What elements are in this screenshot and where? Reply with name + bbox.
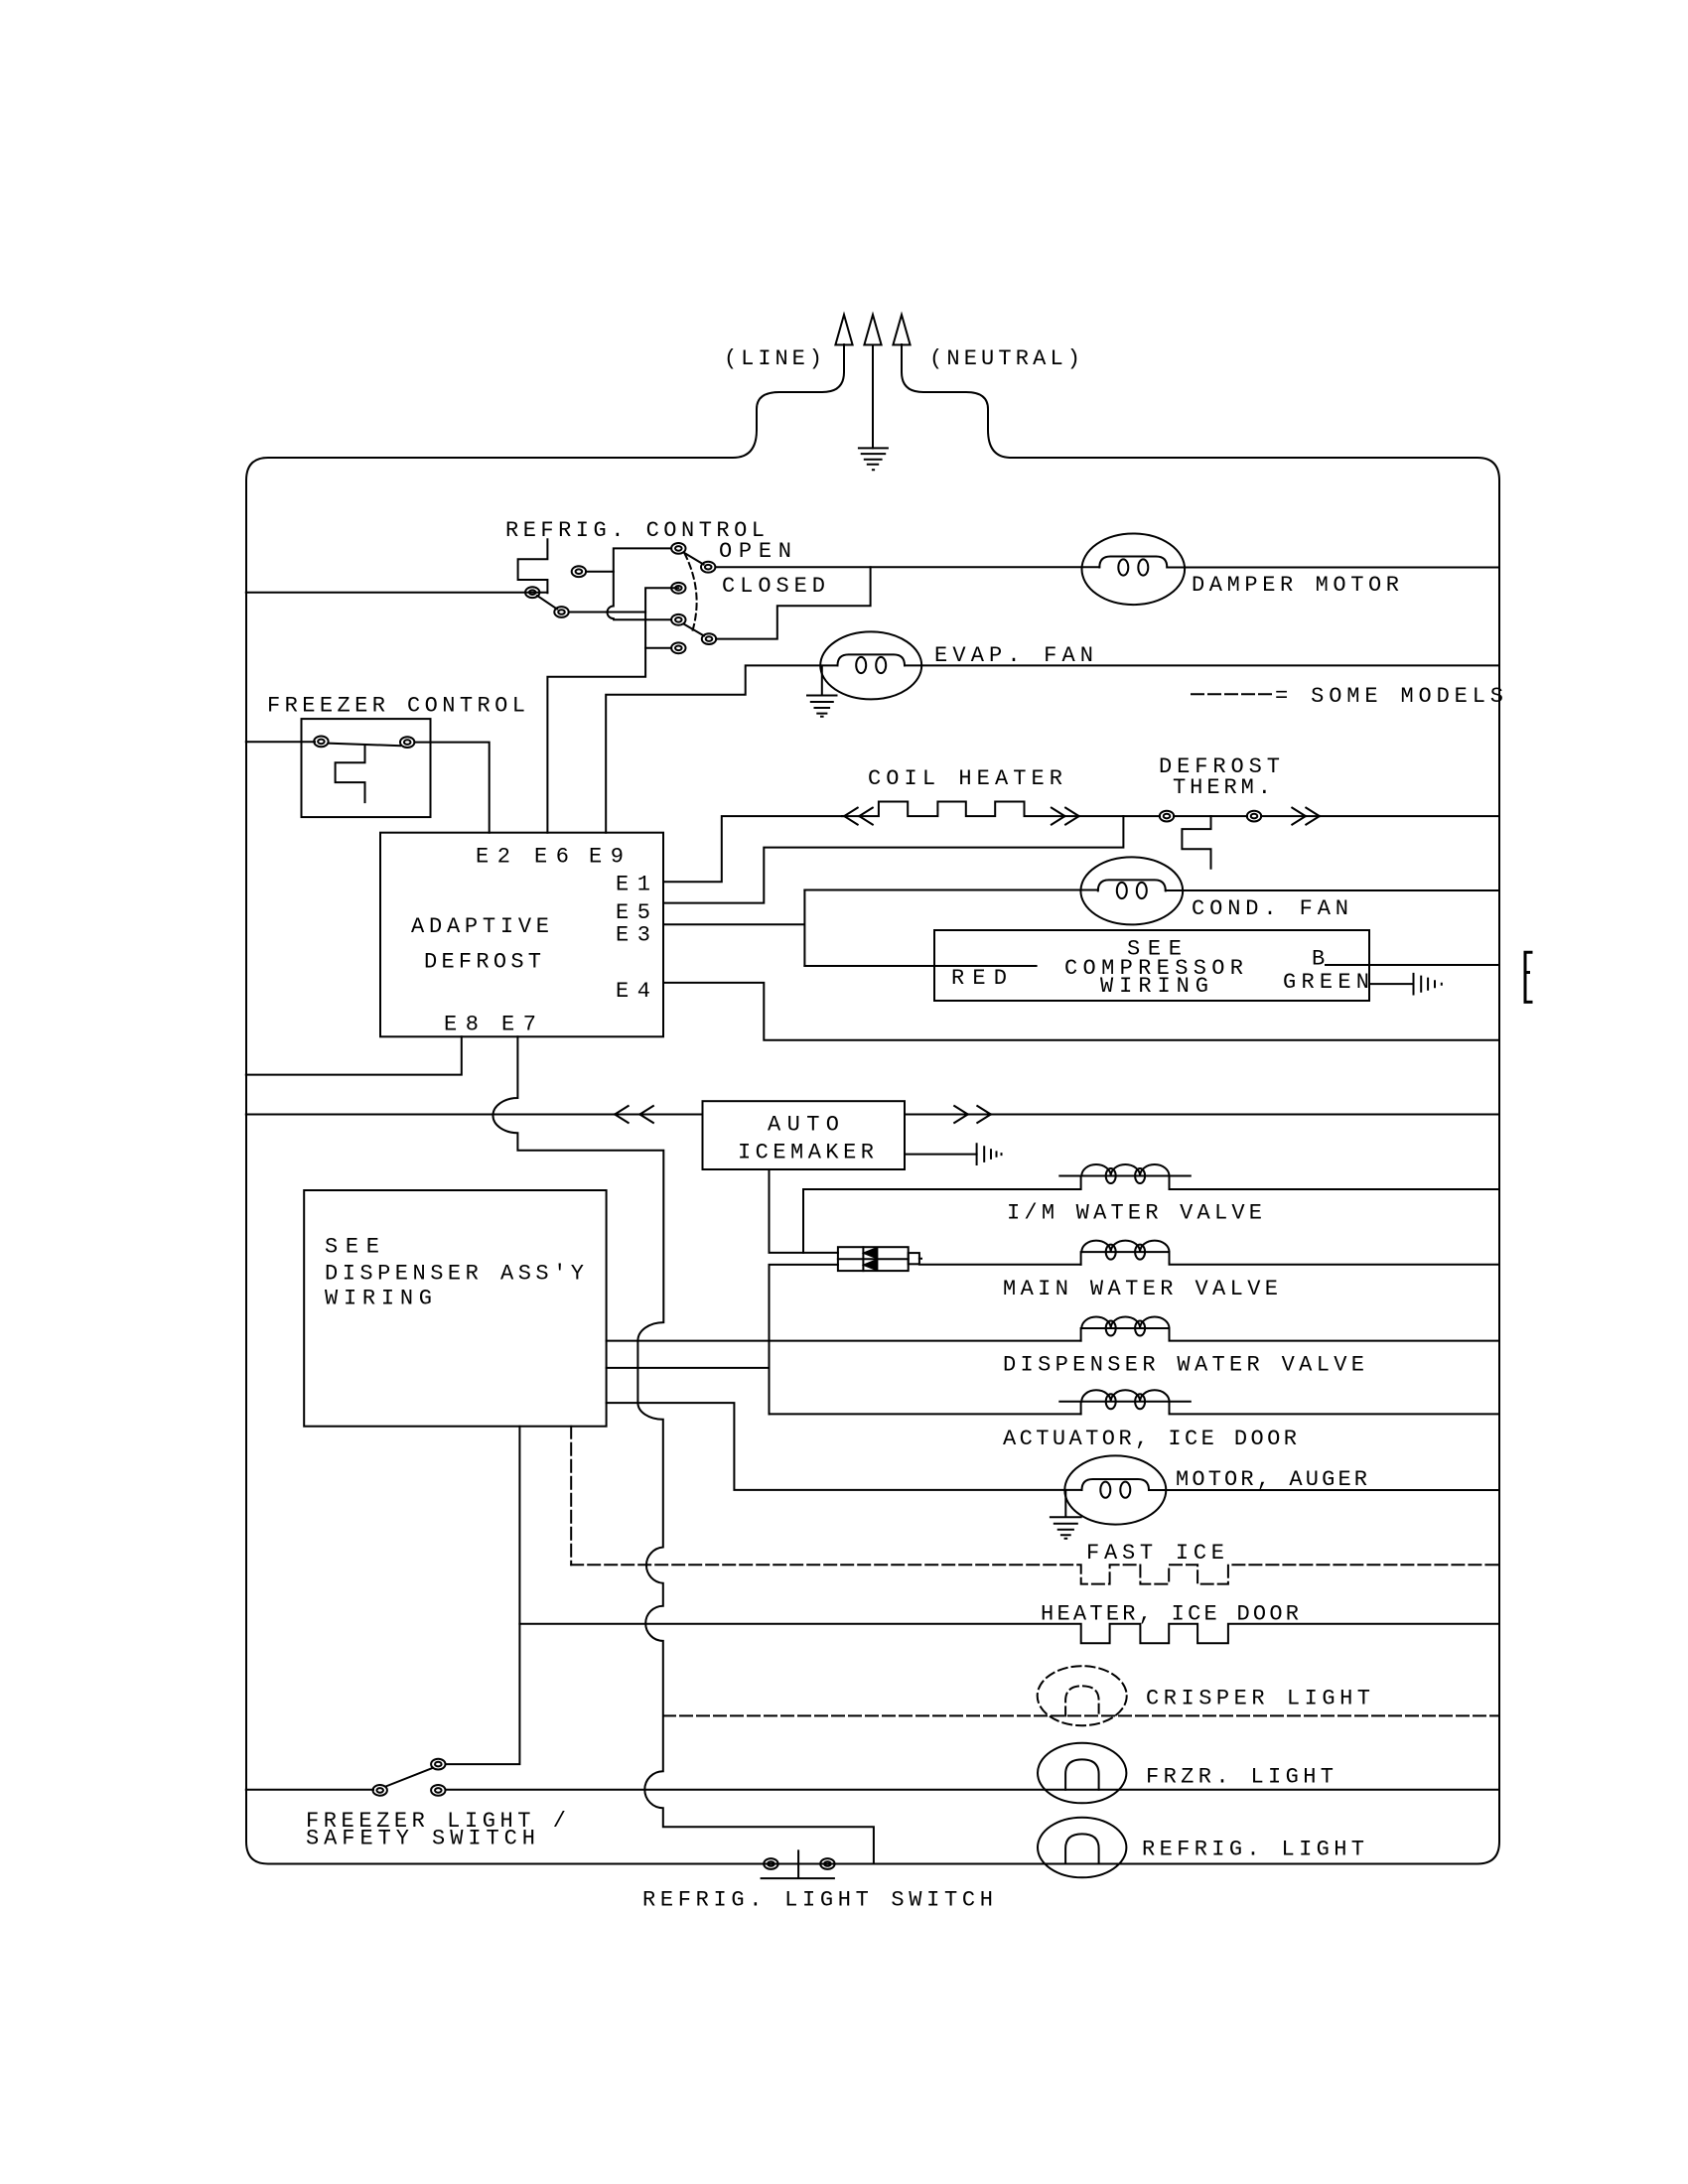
box auto icemaker: [703, 1101, 906, 1169]
lamp freezer light: [1038, 1743, 1126, 1804]
svg-text:SEE: SEE: [325, 1235, 383, 1260]
terminal freezer light switch left: [373, 1785, 387, 1796]
wire B lead to right border: [1326, 964, 1499, 966]
svg-text:WIRING: WIRING: [1100, 974, 1212, 999]
inductor dispenser water valve: [1081, 1316, 1499, 1340]
motor damper coil: [1082, 534, 1186, 606]
wire E3 to condenser fan node: [663, 890, 804, 967]
terminal refrig control T4: [671, 614, 685, 625]
lamp refrigerator light: [1038, 1818, 1126, 1878]
wire E7 long drop: [492, 1036, 873, 1863]
wire closed contact branch: [716, 567, 870, 638]
svg-text:WIRING: WIRING: [325, 1287, 436, 1311]
connector chevrons left of coil heater: [844, 808, 873, 825]
terminal refrig control T1: [525, 587, 539, 598]
wire dispenser pin2: [607, 1367, 770, 1369]
svg-text:THERM.: THERM.: [1173, 775, 1275, 800]
motor auger coil: [1064, 1455, 1166, 1524]
svg-text:= SOME MODELS: = SOME MODELS: [1275, 684, 1507, 709]
svg-text:DEFROST: DEFROST: [424, 950, 545, 975]
wire E3 node to cond fan to right border: [804, 889, 1499, 892]
wire left border to icemaker: [246, 1114, 703, 1116]
legend dashed sample: [1192, 693, 1271, 695]
wire icemaker ground lead: [905, 1154, 977, 1156]
svg-text:REFRIG. LIGHT: REFRIG. LIGHT: [1142, 1838, 1368, 1862]
switch refrig light plunger: [762, 1850, 834, 1878]
wire crisper light dashed row: [663, 1714, 1499, 1716]
heater coil element square wave: [842, 802, 1160, 817]
terminal refrig control T7: [671, 642, 685, 653]
wire dispenser bottom pin to safety switch: [446, 1427, 520, 1764]
svg-text:COND. FAN: COND. FAN: [1192, 896, 1352, 921]
wire E8 to left border: [246, 1036, 462, 1074]
wire I/M valve feed junction: [802, 1189, 804, 1253]
wire T0 riser with hop over T2 wire: [607, 548, 671, 619]
svg-text:(LINE): (LINE): [724, 346, 826, 371]
wire E1 to coil heater: [663, 816, 842, 882]
node NEUTRAL arrow: [893, 315, 910, 344]
wire red compressor lead: [804, 965, 1036, 967]
switch blade freezer light safety: [386, 1768, 434, 1787]
svg-text:ACTUATOR, ICE DOOR: ACTUATOR, ICE DOOR: [1003, 1427, 1301, 1451]
connector chevrons icemaker right: [954, 1106, 991, 1123]
wire fast ice dashed feed: [570, 1427, 572, 1566]
svg-text:ICEMAKER: ICEMAKER: [738, 1141, 878, 1165]
svg-text:ADAPTIVE: ADAPTIVE: [411, 914, 553, 939]
svg-text:FREEZER CONTROL: FREEZER CONTROL: [267, 694, 529, 719]
wire E9 to evap fan: [606, 665, 837, 832]
terminal refrig control T0: [671, 543, 685, 554]
terminal freezer light switch upper: [431, 1759, 445, 1770]
connector chevrons icemaker left: [615, 1106, 653, 1123]
svg-text:MAIN WATER VALVE: MAIN WATER VALVE: [1003, 1277, 1282, 1301]
terminal defrost thermostat left: [1160, 811, 1174, 822]
svg-text:COIL HEATER: COIL HEATER: [868, 766, 1066, 791]
box adaptive defrost control: [380, 833, 663, 1037]
terminal defrost thermostat right: [1247, 811, 1261, 822]
thermostat freezer control step: [336, 745, 365, 802]
connector chevrons right of defrost therm: [1292, 808, 1320, 825]
svg-text:COMPRESSOR: COMPRESSOR: [1064, 956, 1247, 981]
wire left border to freezer light switch: [246, 1789, 373, 1791]
connector bracket outside right border: [1525, 952, 1531, 1002]
wire icemaker to right border: [905, 1114, 1499, 1116]
heater ice door element: [519, 1624, 1499, 1643]
box see dispenser assy wiring: [304, 1190, 606, 1427]
switch blade freezer control: [329, 744, 401, 747]
svg-text:EVAP. FAN: EVAP. FAN: [934, 643, 1097, 668]
svg-text:HEATER, ICE DOOR: HEATER, ICE DOOR: [1041, 1602, 1303, 1627]
svg-text:CLOSED: CLOSED: [722, 574, 829, 599]
wire cam dashed arc: [685, 554, 697, 634]
connector chevrons right of coil heater: [1052, 808, 1079, 825]
wire ground supply line: [864, 315, 881, 448]
node LINE arrow: [835, 315, 852, 344]
wire evap fan to right border: [905, 664, 1499, 666]
wire actuator feed: [770, 1413, 1081, 1415]
motor condenser fan coil: [1080, 857, 1183, 924]
wire freezer light switch to frzr lamp: [446, 1789, 1500, 1791]
wire auger motor to right border: [1149, 1489, 1499, 1491]
svg-text:SAFETY SWITCH: SAFETY SWITCH: [306, 1827, 539, 1851]
wire damper motor to right border: [1167, 567, 1499, 569]
svg-text:B: B: [1312, 947, 1329, 972]
wire green ground lead: [1369, 983, 1414, 985]
wire E4 to right border: [663, 983, 1499, 1040]
heater fast ice dashed element: [571, 1565, 1499, 1583]
wire left border to refrig control common: [246, 592, 548, 594]
svg-text:RED: RED: [951, 966, 1011, 991]
svg-text:DISPENSER ASS'Y: DISPENSER ASS'Y: [325, 1262, 588, 1287]
ground compressor green: [1414, 974, 1442, 995]
wire outer border frame with supply bump: [246, 344, 1499, 1864]
svg-text:CRISPER LIGHT: CRISPER LIGHT: [1146, 1687, 1374, 1711]
svg-text:GREEN: GREEN: [1283, 970, 1373, 995]
terminal refrig light switch left: [764, 1858, 777, 1869]
wire refrig bus vertical to E6: [547, 588, 678, 832]
box see compressor wiring: [934, 930, 1369, 1001]
terminal refrig control T3: [671, 583, 685, 594]
wire defrost therm span: [1174, 815, 1499, 817]
wire E5 to heater junction: [663, 816, 1123, 903]
terminal freezer control right: [400, 737, 414, 748]
inductor actuator ice door: [1059, 1390, 1499, 1414]
diode pack dual check: [838, 1247, 919, 1271]
terminal refrig light switch right: [820, 1858, 834, 1869]
wire icemaker pin to diode pack: [770, 1169, 838, 1253]
svg-text:FAST ICE: FAST ICE: [1086, 1541, 1228, 1566]
terminal freezer control left: [314, 737, 328, 748]
wire freezer control to E2: [414, 743, 489, 833]
box freezer control: [302, 719, 431, 817]
svg-text:(NEUTRAL): (NEUTRAL): [929, 346, 1084, 371]
svg-text:I/M WATER VALVE: I/M WATER VALVE: [1007, 1201, 1266, 1226]
svg-text:DAMPER MOTOR: DAMPER MOTOR: [1192, 573, 1403, 598]
switch blade closed position: [684, 624, 705, 636]
wire T5 stub: [586, 571, 614, 573]
terminal freezer light switch right: [431, 1785, 445, 1796]
wire refrig control label connector step: [518, 539, 548, 593]
wire diode pack to main valve row: [919, 1259, 1081, 1265]
ground evap fan: [807, 667, 837, 717]
terminal refrig control T2: [554, 607, 568, 617]
inductor I/M water valve: [803, 1164, 1499, 1189]
motor evap fan coil: [820, 631, 921, 699]
svg-text:DISPENSER WATER VALVE: DISPENSER WATER VALVE: [1003, 1353, 1368, 1378]
switch blade open position: [684, 553, 704, 565]
thermostat defrost bimetal step: [1182, 816, 1210, 869]
wire dispenser row2 feed to diode pack: [770, 1265, 838, 1415]
wire left border to freezer control: [246, 741, 315, 743]
ground icemaker: [977, 1144, 1002, 1164]
wire T7 stub: [645, 647, 671, 649]
terminal refrig control closed: [702, 633, 716, 644]
lamp crisper light dashed: [1038, 1666, 1127, 1725]
svg-text:MOTOR, AUGER: MOTOR, AUGER: [1176, 1467, 1371, 1492]
svg-text:REFRIG. LIGHT SWITCH: REFRIG. LIGHT SWITCH: [642, 1888, 997, 1913]
wire open contact to damper line: [715, 566, 1099, 568]
svg-text:FRZR. LIGHT: FRZR. LIGHT: [1146, 1765, 1337, 1790]
switch blade refrig control common: [537, 596, 557, 610]
ground main supply earth: [859, 448, 888, 470]
terminal refrig control open: [701, 562, 715, 573]
inductor main water valve: [1081, 1241, 1499, 1265]
ground auger motor: [1051, 1490, 1081, 1539]
terminal refrig control T5: [572, 566, 586, 577]
wire dispenser pin1 to dispenser valve: [607, 1340, 1081, 1342]
wire dispenser pin3 to auger motor: [607, 1403, 1082, 1490]
wire T2 to bus: [569, 612, 645, 614]
